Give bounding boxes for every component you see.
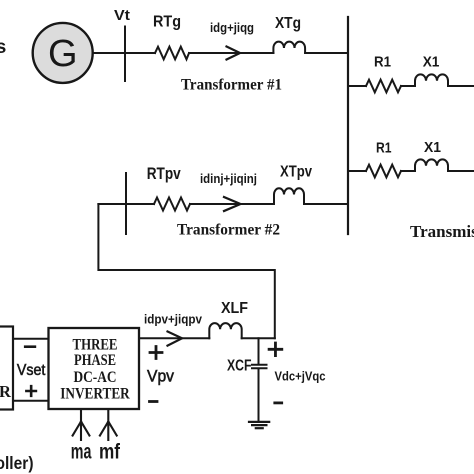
resistor R1 (line 2) [366,141,401,178]
svg-text:idpv+jiqpv: idpv+jiqpv [144,313,202,327]
svg-text:RTpv: RTpv [147,165,181,183]
svg-text:R1: R1 [376,141,392,157]
resistor RTpv [147,165,190,210]
wire bus to R1 line1 [348,85,366,87]
svg-text:G: G [48,33,78,75]
control input arrow mf [100,411,117,440]
wire corner to RTpv [98,203,154,205]
wire inverter branch: down, right, down to node [98,204,274,338]
svg-text:oller): oller) [0,453,34,473]
wire inverter output to XLF [139,337,209,339]
svg-text:XTg: XTg [275,15,301,32]
wire RTg to XTg [189,52,273,54]
wire X1 to edge line1 [448,85,474,87]
inductor XTg [273,15,305,53]
wire R1 to X1 line1 [401,85,415,87]
label Vset with polarity [17,347,46,396]
svg-text:XCF: XCF [227,358,252,375]
svg-text:XTpv: XTpv [280,164,312,181]
wire XLF to node [242,337,275,339]
label Vpv with polarity [147,347,175,402]
label Vdc+jVqc with polarity [269,343,325,403]
svg-text:Vpv: Vpv [147,368,175,386]
inductor XTpv [274,164,312,205]
svg-text:Transformer #1: Transformer #1 [181,77,282,94]
resistor R1 (line 1) [366,54,401,92]
svg-text:R1: R1 [374,54,391,70]
wire controller to inverter (bottom) [13,400,49,402]
wire bus to R1 line2 [348,170,366,172]
node tick on transformer-2 wire [125,173,127,234]
svg-text:idg+jiqg: idg+jiqg [210,21,254,35]
inverter box U1 [49,328,140,409]
wire X1 to edge line2 [448,170,474,172]
generator G [33,23,93,83]
wire controller to inverter (top) [13,338,49,340]
resistor RTg [153,13,189,59]
svg-text:R: R [0,382,12,401]
wire generator to RTg [93,52,155,54]
capacitor XCF [227,338,267,421]
svg-text:XLF: XLF [221,300,248,317]
ground [249,422,269,428]
svg-text:Vset: Vset [17,362,46,379]
current arrow idinj+jiqinj [200,172,257,211]
svg-text:THREE: THREE [73,337,118,354]
svg-text:Vdc+jVqc: Vdc+jVqc [275,370,326,384]
control input arrow ma [73,411,90,440]
svg-text:RTg: RTg [153,13,181,30]
svg-text:X1: X1 [423,55,440,71]
wire RTpv to XTpv [190,203,274,205]
current arrow idpv+jiqpv [144,313,202,346]
svg-text:ma: ma [71,441,92,464]
svg-text:mf: mf [99,441,121,464]
current arrow idg+jiqg [210,21,254,60]
inductor X1 (line 1) [415,55,448,87]
bus (vertical) [347,17,349,234]
svg-text:Transformer #2: Transformer #2 [177,222,280,239]
svg-text:DC-AC: DC-AC [74,369,117,386]
svg-text:Vt: Vt [114,7,130,24]
svg-text:Transmission line: Transmission line [410,222,474,241]
node Vt [114,7,130,81]
inductor X1 (line 2) [415,140,448,171]
svg-text:s: s [0,36,7,58]
controller box (clipped at left edge) [0,327,13,410]
wire XTg to bus [305,52,348,54]
wire R1 to X1 line2 [401,170,415,172]
svg-text:X1: X1 [424,140,441,156]
wire XTpv to bus [304,203,348,205]
svg-text:INVERTER: INVERTER [60,385,130,402]
inductor XLF [209,300,248,338]
svg-text:idinj+jiqinj: idinj+jiqinj [200,172,257,186]
svg-text:PHASE: PHASE [74,352,116,369]
